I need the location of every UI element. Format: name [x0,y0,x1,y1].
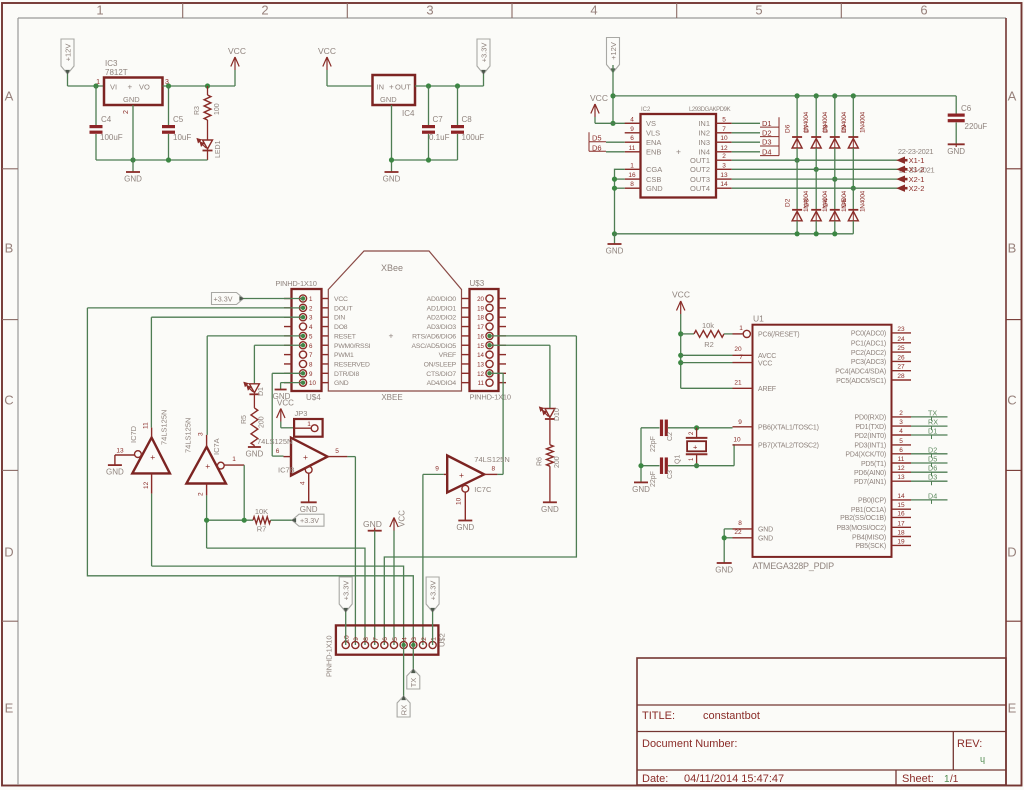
svg-text:5: 5 [722,116,726,123]
svg-text:Q1: Q1 [675,455,682,464]
svg-text:E: E [1008,701,1017,716]
svg-text:D: D [4,545,13,560]
svg-text:PINHD-1X10: PINHD-1X10 [470,393,511,402]
svg-text:VCC: VCC [318,46,336,56]
svg-text:X1-1: X1-1 [909,156,925,165]
svg-text:23: 23 [897,326,905,333]
svg-text:2: 2 [198,492,205,496]
svg-text:ON/SLEEP: ON/SLEEP [424,361,457,368]
svg-text:10: 10 [733,437,741,444]
svg-text:AD3/DIO3: AD3/DIO3 [427,324,457,331]
svg-text:PB7(XTAL2/TOSC2): PB7(XTAL2/TOSC2) [758,443,819,450]
svg-text:VCC: VCC [277,399,294,408]
svg-text:22pF: 22pF [650,471,657,487]
svg-text:VLS: VLS [646,129,660,138]
svg-text:GND: GND [606,247,624,256]
svg-text:15: 15 [897,502,905,509]
svg-text:+: + [128,83,133,92]
svg-text:PC6(/RESET): PC6(/RESET) [758,332,799,339]
svg-text:XBEE: XBEE [381,393,402,402]
svg-text:AD2/DIO2: AD2/DIO2 [427,315,457,322]
svg-text:8: 8 [363,637,370,641]
svg-text:1N4004: 1N4004 [859,111,866,133]
svg-text:+: + [459,470,464,480]
svg-text:PD2(INT0): PD2(INT0) [854,433,886,440]
svg-text:D6: D6 [928,464,937,473]
svg-text:3: 3 [426,3,433,18]
svg-text:IN1: IN1 [698,119,710,128]
svg-text:13: 13 [477,361,484,368]
svg-text:13: 13 [897,474,905,481]
svg-text:D5: D5 [841,198,848,207]
svg-text:GND: GND [246,450,264,459]
svg-text:PINHD-1X10: PINHD-1X10 [275,279,316,288]
svg-text:D6: D6 [785,124,792,133]
svg-text:2: 2 [899,410,903,417]
svg-text:TITLE:: TITLE: [642,710,675,722]
svg-text:DOUT: DOUT [334,305,353,312]
svg-text:7812T: 7812T [105,68,128,77]
svg-text:VCC: VCC [334,296,348,303]
svg-text:3: 3 [198,432,205,436]
svg-text:C7: C7 [433,115,444,124]
svg-text:2: 2 [722,153,726,160]
svg-text:X1-2: X1-2 [909,165,925,174]
svg-text:REV:: REV: [957,738,982,750]
svg-text:1: 1 [96,3,103,18]
svg-text:10: 10 [456,497,463,505]
svg-text:10: 10 [309,380,316,387]
svg-text:XBee: XBee [381,263,403,273]
svg-text:ASC/AD5/DIO5: ASC/AD5/DIO5 [412,343,457,350]
svg-text:22pF: 22pF [650,436,657,452]
svg-text:VCC: VCC [398,510,407,527]
svg-text:D1: D1 [258,387,265,396]
svg-text:2: 2 [421,637,428,641]
svg-text:12: 12 [720,145,728,152]
svg-text:A: A [1008,89,1017,104]
svg-text:D2: D2 [762,128,772,137]
svg-text:8: 8 [630,181,634,188]
svg-text:PD0(RXD): PD0(RXD) [855,415,886,422]
svg-text:+: + [693,443,698,452]
svg-text:74LS125N: 74LS125N [160,410,169,445]
svg-text:U$3: U$3 [470,279,485,288]
svg-text:VCC: VCC [758,360,772,367]
svg-text:PB1(OC1A): PB1(OC1A) [851,507,886,514]
svg-text:IC7C: IC7C [474,485,492,494]
svg-text:8: 8 [491,466,495,473]
svg-text:6: 6 [899,447,903,454]
svg-text:U1: U1 [753,314,764,324]
svg-text:D4: D4 [762,147,772,156]
svg-text:220uF: 220uF [965,122,988,131]
svg-text:13: 13 [720,172,728,179]
svg-text:+: + [150,452,155,462]
svg-text:D5: D5 [928,455,937,464]
svg-text:PD7(AIN1): PD7(AIN1) [854,479,886,486]
svg-text:IC3: IC3 [105,59,118,68]
svg-text:R6: R6 [537,457,544,466]
svg-text:IC2: IC2 [641,107,651,113]
svg-text:0.1uF: 0.1uF [429,133,450,142]
svg-text:CGA: CGA [646,165,662,174]
svg-text:9: 9 [435,466,439,473]
svg-text:+3.3V: +3.3V [300,516,319,525]
svg-text:+3.3V: +3.3V [428,581,437,601]
svg-text:D7: D7 [804,124,811,133]
svg-text:+: + [676,147,681,157]
svg-text:1: 1 [739,325,743,332]
svg-text:PD5(T1): PD5(T1) [861,461,886,468]
svg-text:VS: VS [646,119,656,128]
svg-text:E: E [5,701,14,716]
svg-text:11: 11 [143,422,150,429]
svg-text:10k: 10k [702,321,714,330]
svg-text:20: 20 [734,346,742,353]
svg-text:VO: VO [139,83,150,92]
svg-text:100: 100 [214,103,221,115]
svg-text:VCC: VCC [228,46,246,56]
svg-text:14: 14 [477,352,484,359]
svg-text:TX: TX [928,408,937,417]
svg-text:11: 11 [478,380,485,387]
svg-text:GND: GND [758,527,773,534]
svg-text:R3: R3 [194,106,201,115]
svg-text:OUT3: OUT3 [690,175,710,184]
svg-text:GND: GND [383,175,401,184]
svg-text:L293DGAKPD9K: L293DGAKPD9K [689,107,731,113]
svg-text:B: B [5,241,14,256]
svg-text:IN: IN [377,83,385,92]
svg-text:ENA: ENA [646,138,661,147]
svg-text:200: 200 [259,416,266,428]
svg-text:PB0(ICP): PB0(ICP) [858,498,886,505]
svg-text:100uF: 100uF [462,133,485,142]
svg-text:PB3(MOSI/OC2): PB3(MOSI/OC2) [836,525,886,532]
svg-text:4: 4 [300,481,307,485]
svg-text:ENB: ENB [646,148,661,157]
svg-text:PC1(ADC1): PC1(ADC1) [851,341,886,348]
svg-text:3: 3 [722,162,726,169]
svg-text:3: 3 [899,419,903,426]
svg-text:1: 1 [96,79,100,86]
svg-text:8: 8 [738,520,742,527]
svg-text:100uF: 100uF [100,133,123,142]
svg-text:LED1: LED1 [215,140,222,158]
svg-text:1: 1 [232,456,236,463]
svg-text:10: 10 [344,635,351,643]
svg-text:27: 27 [897,364,905,371]
svg-text:D4: D4 [928,491,937,500]
svg-text:6: 6 [382,637,389,641]
svg-text:C: C [4,393,13,408]
svg-text:PC4(ADC4/SDA): PC4(ADC4/SDA) [835,369,886,376]
svg-text:5: 5 [309,333,313,340]
svg-text:+: + [389,331,394,341]
svg-text:D1: D1 [928,427,937,436]
svg-text:4: 4 [590,3,597,18]
svg-text:IC7A: IC7A [212,438,221,455]
svg-text:12: 12 [143,481,150,489]
svg-text:C: C [1007,393,1016,408]
svg-text:7: 7 [722,126,726,133]
svg-text:ATMEGA328P_PDIP: ATMEGA328P_PDIP [753,561,835,571]
svg-text:10K: 10K [255,507,268,516]
svg-text:10: 10 [720,135,728,142]
svg-text:OUT2: OUT2 [690,165,710,174]
svg-text:GND: GND [541,505,559,514]
svg-text:2: 2 [123,110,130,114]
svg-text:OUT4: OUT4 [690,184,710,193]
svg-text:C4: C4 [101,115,112,124]
svg-text:+3.3V: +3.3V [479,43,488,63]
svg-text:5: 5 [392,637,399,641]
svg-text:16: 16 [477,333,484,340]
svg-text:RX: RX [928,418,938,427]
svg-text:GND: GND [456,523,474,532]
svg-text:IC4: IC4 [402,109,415,118]
svg-text:GND: GND [334,380,349,387]
svg-text:GND: GND [646,184,663,193]
svg-text:04/11/2014 15:47:47: 04/11/2014 15:47:47 [684,773,784,785]
svg-text:6: 6 [920,3,927,18]
svg-text:D10: D10 [554,408,561,421]
svg-text:16: 16 [628,172,636,179]
svg-text:+12V: +12V [609,42,618,60]
svg-text:200: 200 [554,456,561,468]
svg-text:2: 2 [309,305,313,312]
svg-text:GND: GND [124,175,142,184]
svg-text:C6: C6 [961,104,972,113]
svg-text:74LS125N: 74LS125N [474,455,509,464]
svg-text:D9: D9 [841,124,848,133]
svg-text:15: 15 [477,343,484,350]
svg-text:VI: VI [110,83,117,92]
svg-text:RESET: RESET [334,333,356,340]
svg-text:5: 5 [899,438,903,445]
svg-text:14: 14 [897,493,905,500]
svg-text:24: 24 [897,336,905,343]
svg-text:PC0(ADC0): PC0(ADC0) [851,331,886,338]
svg-text:1: 1 [307,421,311,428]
svg-text:VCC: VCC [590,93,608,103]
svg-text:PB4(MISO): PB4(MISO) [852,534,886,541]
svg-text:28: 28 [897,373,905,380]
svg-text:+: + [205,461,210,471]
svg-text:X2-1: X2-1 [909,175,925,184]
svg-text:1: 1 [630,162,634,169]
svg-text:JP3: JP3 [295,409,308,418]
svg-text:C8: C8 [462,115,473,124]
svg-text:AREF: AREF [758,386,776,393]
svg-text:D4: D4 [822,198,829,207]
svg-text:GND: GND [106,468,124,477]
svg-text:16: 16 [897,510,905,517]
svg-text:RESERVED: RESERVED [334,361,370,368]
svg-text:D: D [1007,545,1016,560]
svg-text:22-23-2021: 22-23-2021 [898,147,933,156]
svg-text:21: 21 [734,380,742,387]
svg-text:PB5(SCK): PB5(SCK) [855,543,886,550]
svg-text:Document Number:: Document Number: [642,738,737,750]
svg-text:11: 11 [629,145,636,152]
svg-text:PC2(ADC2): PC2(ADC2) [851,350,886,357]
svg-text:5: 5 [335,448,339,455]
svg-text:A: A [5,89,14,104]
svg-text:17: 17 [477,324,484,331]
svg-text:4: 4 [899,428,903,435]
svg-text:Sheet:: Sheet: [902,773,934,785]
svg-text:PWM1: PWM1 [334,352,354,359]
svg-text:PC5(ADC5/SC1): PC5(ADC5/SC1) [836,378,886,385]
svg-text:5: 5 [755,3,762,18]
svg-text:+: + [389,83,394,92]
svg-text:GND: GND [123,95,140,104]
svg-text:RX: RX [399,705,408,715]
svg-text:PINHD-1X10: PINHD-1X10 [325,636,334,677]
svg-text:D3: D3 [762,138,772,147]
svg-text:TX: TX [409,678,418,688]
svg-text:74LS125N: 74LS125N [257,437,292,446]
svg-text:4: 4 [309,324,313,331]
svg-text:IN3: IN3 [698,138,710,147]
svg-text:6: 6 [630,135,634,142]
svg-text:/1: /1 [950,774,959,785]
svg-text:AVCC: AVCC [758,353,776,360]
svg-text:19: 19 [477,305,484,312]
svg-text:1: 1 [309,296,313,303]
svg-text:PC3(ADC3): PC3(ADC3) [851,359,886,366]
svg-text:OUT1: OUT1 [690,156,710,165]
svg-text:25: 25 [897,345,905,352]
svg-text:X2-2: X2-2 [909,184,925,193]
svg-text:GND: GND [758,536,773,543]
svg-text:22: 22 [734,529,742,536]
svg-text:+12V: +12V [63,44,72,62]
svg-text:R5: R5 [241,415,248,424]
svg-text:GND: GND [632,485,650,494]
svg-text:3: 3 [411,637,418,641]
svg-text:AD1/DIO1: AD1/DIO1 [427,305,457,312]
svg-text:6: 6 [309,343,313,350]
svg-text:PD3(INT1): PD3(INT1) [854,443,886,450]
svg-text:2: 2 [261,3,268,18]
svg-text:R7: R7 [257,525,267,534]
svg-text:C5: C5 [173,115,184,124]
svg-text:DO8: DO8 [334,324,348,331]
svg-text:20: 20 [477,296,484,303]
svg-text:D8: D8 [822,124,829,133]
svg-text:CTS/DIO7: CTS/DIO7 [426,371,456,378]
svg-text:9: 9 [738,419,742,426]
svg-text:12: 12 [897,465,905,472]
svg-text:VREF: VREF [439,352,456,359]
svg-text:DIN: DIN [334,315,345,322]
svg-text:PB6(XTAL1/TOSC1): PB6(XTAL1/TOSC1) [758,425,819,432]
svg-text:9: 9 [630,126,634,133]
svg-text:14: 14 [720,181,728,188]
svg-text:7: 7 [309,352,313,359]
svg-text:U$2: U$2 [438,633,447,647]
svg-text:9: 9 [353,637,360,641]
svg-text:3: 3 [309,315,313,322]
svg-text:GND: GND [363,519,382,529]
svg-text:17: 17 [897,520,905,527]
svg-text:+3.3V: +3.3V [214,294,233,303]
svg-text:26: 26 [897,354,905,361]
svg-text:CSB: CSB [646,175,661,184]
svg-text:GND: GND [380,95,397,104]
svg-text:PD1(TXD): PD1(TXD) [855,424,886,431]
svg-text:PD4(XCK/T0): PD4(XCK/T0) [845,452,886,459]
svg-text:+: + [303,452,308,462]
svg-text:19: 19 [897,538,905,545]
svg-text:1: 1 [430,637,437,641]
svg-text:7: 7 [372,637,379,641]
svg-text:Date:: Date: [642,773,668,785]
svg-text:GND: GND [947,147,965,156]
svg-text:1N4004: 1N4004 [859,190,866,212]
svg-text:18: 18 [477,315,484,322]
svg-text:RTS/AD6/DIO6: RTS/AD6/DIO6 [412,333,456,340]
svg-text:IN2: IN2 [698,129,710,138]
svg-text:D2: D2 [785,198,792,207]
svg-text:+3.3V: +3.3V [342,581,351,601]
svg-text:PWM0/RSSI: PWM0/RSSI [334,343,371,350]
svg-text:D1: D1 [762,119,772,128]
svg-text:10uF: 10uF [173,133,191,142]
svg-text:GND: GND [300,505,318,514]
svg-text:D2: D2 [928,445,937,454]
svg-text:IC7D: IC7D [129,425,138,443]
svg-text:R2: R2 [704,340,714,349]
svg-text:PB2(SS/OC1B): PB2(SS/OC1B) [840,515,886,522]
svg-text:12: 12 [477,371,484,378]
svg-text:D3: D3 [928,473,937,482]
svg-text:ɥ: ɥ [980,754,985,764]
svg-text:11: 11 [898,456,905,463]
svg-text:4: 4 [630,116,634,123]
svg-text:8: 8 [309,361,313,368]
svg-text:74LS125N: 74LS125N [184,418,193,453]
svg-text:GND: GND [715,566,733,575]
svg-text:VCC: VCC [672,290,690,300]
svg-text:constantbot: constantbot [703,710,760,722]
svg-text:9: 9 [309,371,313,378]
svg-text:DTR/DI8: DTR/DI8 [334,371,359,378]
svg-text:D3: D3 [804,198,811,207]
svg-text:B: B [1008,241,1017,256]
svg-text:C3: C3 [667,470,674,479]
svg-text:IC7B: IC7B [278,466,295,475]
svg-text:C2: C2 [667,432,674,441]
svg-text:OUT: OUT [395,83,411,92]
svg-text:AD0/DIO0: AD0/DIO0 [427,296,457,303]
svg-text:PD6(AIN0): PD6(AIN0) [854,470,886,477]
svg-text:7: 7 [739,354,743,361]
svg-text:AD4/DIO4: AD4/DIO4 [427,380,457,387]
svg-text:13: 13 [116,448,124,455]
svg-text:6: 6 [276,448,280,455]
svg-text:18: 18 [897,530,905,537]
svg-text:U$4: U$4 [306,393,321,402]
svg-text:4: 4 [401,637,408,641]
